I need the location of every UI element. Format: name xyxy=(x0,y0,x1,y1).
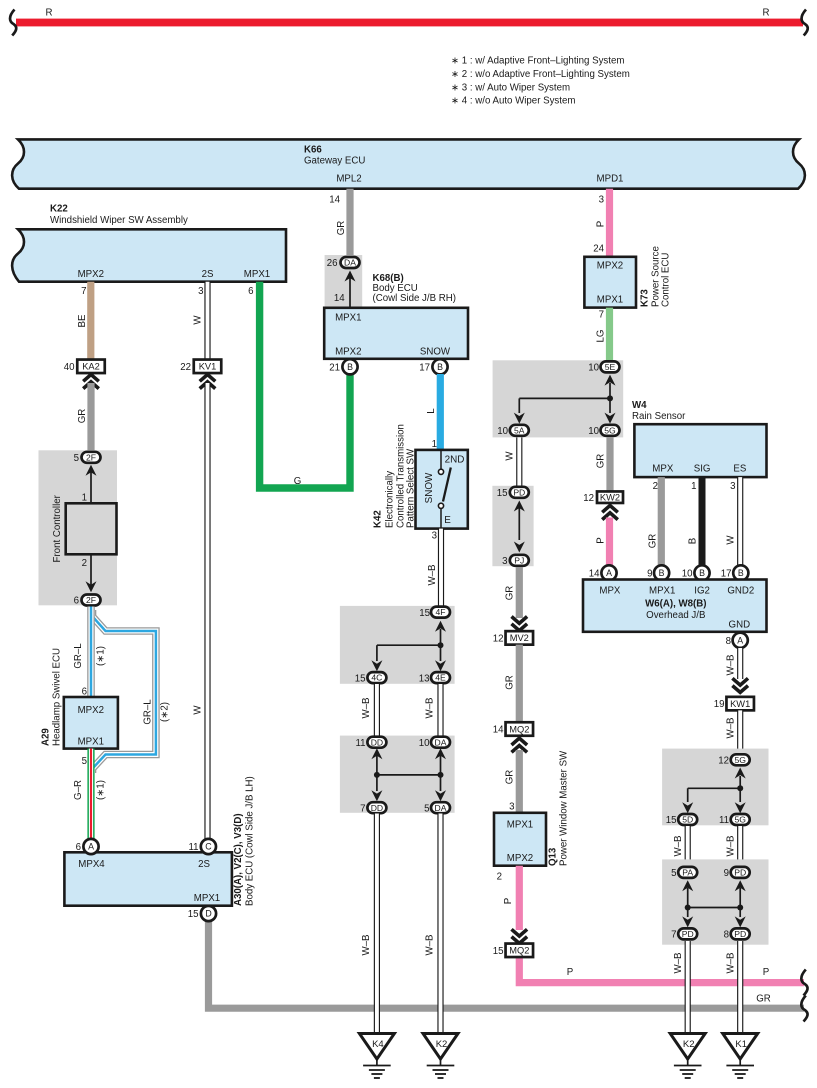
connector D pin 15 xyxy=(188,906,216,921)
wire W-B PD pin8 to ground K1 xyxy=(726,941,741,1034)
svg-text:MPL2: MPL2 xyxy=(336,174,361,185)
svg-text:MQ2: MQ2 xyxy=(509,946,529,956)
ECU A29 Headlamp Swivel ECU xyxy=(41,648,118,749)
svg-text:KA2: KA2 xyxy=(82,362,100,372)
wire W-B 4C to DD xyxy=(361,684,377,737)
node PD PJ link xyxy=(514,501,525,553)
break symbol right of P bus xyxy=(801,970,807,996)
node 4F junction xyxy=(371,621,446,672)
node PA PD junctions xyxy=(682,880,746,927)
svg-text:K2: K2 xyxy=(436,1039,448,1050)
wire BE K22 pin7 to KA2 xyxy=(77,282,91,359)
svg-text:21: 21 xyxy=(329,363,340,374)
svg-text:2F: 2F xyxy=(86,595,96,605)
shield distribution block 5G 5D xyxy=(662,749,768,826)
svg-text:7: 7 xyxy=(599,310,604,321)
svg-text:22: 22 xyxy=(180,362,191,373)
wire W-B 5D to PA xyxy=(673,826,688,861)
svg-text:B: B xyxy=(688,538,699,544)
svg-text:PD: PD xyxy=(682,929,694,939)
wire GR KA2 to 2F xyxy=(77,383,91,450)
svg-text:40: 40 xyxy=(64,362,75,373)
svg-text:5: 5 xyxy=(671,868,676,879)
connector 5G pin 11 xyxy=(719,814,750,826)
svg-text:26: 26 xyxy=(327,258,338,269)
svg-text:MPX1: MPX1 xyxy=(335,313,361,324)
connector B pin 17 xyxy=(721,565,749,580)
svg-text:K73: K73 xyxy=(640,289,651,307)
svg-text:L: L xyxy=(426,408,437,414)
svg-text:W–B: W–B xyxy=(726,953,737,974)
svg-text:5G: 5G xyxy=(734,755,746,765)
svg-text:MV2: MV2 xyxy=(510,633,529,643)
svg-text:W: W xyxy=(726,535,737,545)
wire P MQ2 to right edge xyxy=(519,956,804,983)
svg-text:A: A xyxy=(606,568,612,578)
svg-text:LG: LG xyxy=(596,330,607,343)
svg-text:MPX2: MPX2 xyxy=(597,261,623,272)
connector PJ pin 3 xyxy=(502,555,529,567)
connector DD pin 11 xyxy=(355,737,386,749)
svg-text:W–B: W–B xyxy=(673,836,684,857)
svg-text:W–B: W–B xyxy=(673,953,684,974)
svg-text:3: 3 xyxy=(730,481,735,492)
svg-text:19: 19 xyxy=(714,699,725,710)
svg-text:W: W xyxy=(505,451,516,461)
chevron into KW2 xyxy=(602,506,618,513)
ground K1 xyxy=(723,1034,758,1079)
svg-text:6: 6 xyxy=(248,286,253,297)
chevron into MQ2 pin15 xyxy=(512,929,528,936)
wire W 5A to PD xyxy=(505,437,520,487)
arrow pin14 into DA xyxy=(334,271,356,308)
svg-text:MPX: MPX xyxy=(599,586,621,597)
arrow up into 2F xyxy=(86,465,97,504)
svg-text:W–B: W–B xyxy=(726,836,737,857)
ground K2 xyxy=(423,1034,458,1079)
svg-text:5E: 5E xyxy=(605,362,616,372)
connector 5E pin 10 xyxy=(588,361,619,373)
connector 2F pin 6 xyxy=(74,595,101,607)
wire G K22 MPX1 pin6 to K68 MPX2 pin21 xyxy=(248,282,350,488)
connector DA pin 5 xyxy=(424,802,450,814)
svg-text:Body ECU (Cowl Side J/B LH): Body ECU (Cowl Side J/B LH) xyxy=(245,776,256,906)
svg-text:W–B: W–B xyxy=(726,718,737,739)
wire B W4 SIG pin1 to overhead IG2 xyxy=(688,477,703,565)
svg-text:W6(A), W8(B): W6(A), W8(B) xyxy=(645,599,706,610)
svg-text:15: 15 xyxy=(666,815,677,826)
svg-text:13: 13 xyxy=(419,673,430,684)
svg-text:4E: 4E xyxy=(435,673,446,683)
svg-text:PJ: PJ xyxy=(514,555,524,565)
svg-text:11: 11 xyxy=(719,815,729,826)
svg-text:3: 3 xyxy=(502,556,507,567)
svg-text:GND2: GND2 xyxy=(727,586,754,597)
shield pad above K68 xyxy=(325,255,363,308)
svg-text:GR: GR xyxy=(336,221,347,236)
svg-text:K22: K22 xyxy=(50,204,68,215)
legend notes xyxy=(451,56,630,107)
connector B pin 17 xyxy=(419,359,447,374)
connector 4C pin 15 xyxy=(355,672,387,684)
wire P K66 MPD1 pin3 to K73 pin24 xyxy=(593,189,609,257)
svg-text:B: B xyxy=(659,568,665,578)
svg-text:Electronically: Electronically xyxy=(385,471,396,528)
svg-text:GR: GR xyxy=(77,409,88,424)
svg-text:5: 5 xyxy=(424,803,429,814)
svg-text:4F: 4F xyxy=(435,607,445,617)
connector 4E pin 13 xyxy=(419,672,450,684)
connector 5D pin 15 xyxy=(666,814,697,826)
connector A pin 8 xyxy=(726,633,748,648)
svg-text:Power Window Master SW: Power Window Master SW xyxy=(559,750,570,866)
shield distribution block 5E 5A 5G xyxy=(493,360,624,437)
svg-text:∗ 3 : w/ Auto Wiper System: ∗ 3 : w/ Auto Wiper System xyxy=(451,82,570,93)
wire GR-L (*2) loop xyxy=(93,610,171,773)
svg-text:10: 10 xyxy=(588,426,599,437)
connector DD pin 7 xyxy=(360,802,386,814)
sensor W4 Rain Sensor xyxy=(632,400,767,477)
ECU A30(A) V2(C) V3(D) Body ECU Cowl Side J/B LH xyxy=(64,776,255,906)
svg-text:P: P xyxy=(596,537,607,543)
svg-text:5G: 5G xyxy=(734,815,746,825)
svg-text:P: P xyxy=(596,221,607,227)
svg-text:∗ 2 : w/o Adaptive Front–Light: ∗ 2 : w/o Adaptive Front–Lighting System xyxy=(451,69,630,80)
svg-text:W: W xyxy=(193,705,204,715)
svg-text:(∗1): (∗1) xyxy=(96,646,107,666)
svg-text:PA: PA xyxy=(682,868,693,878)
svg-text:7: 7 xyxy=(360,803,365,814)
ECU K66 Gateway ECU xyxy=(12,139,805,188)
svg-text:7: 7 xyxy=(671,930,676,941)
wire LG K73 MPX1 pin7 to 5E xyxy=(596,308,610,363)
svg-text:BE: BE xyxy=(77,314,88,327)
connector 5G pin 10 xyxy=(588,425,619,437)
svg-text:12: 12 xyxy=(493,634,504,645)
svg-text:MPX: MPX xyxy=(652,464,674,475)
wire W-B DD pin7 to ground K4 xyxy=(361,814,377,1035)
shield distribution block PA PD xyxy=(662,859,768,944)
break symbol left of bus R xyxy=(10,10,16,36)
svg-text:3: 3 xyxy=(198,286,203,297)
connector KV1 pin 22 xyxy=(180,360,221,374)
wire W W4 ES pin3 to overhead GND2 xyxy=(726,477,741,565)
svg-text:DD: DD xyxy=(371,803,383,813)
connector PD pin 7 xyxy=(671,928,697,940)
svg-text:6: 6 xyxy=(74,596,79,607)
svg-text:7: 7 xyxy=(81,286,86,297)
wire W-B 5G to PD xyxy=(726,826,741,861)
svg-text:B: B xyxy=(347,362,353,372)
connector PD pin 15 xyxy=(497,487,529,499)
svg-text:10: 10 xyxy=(682,569,693,580)
svg-text:GR–L: GR–L xyxy=(143,699,154,725)
wire W-B overhead GND pin8 to KW1 xyxy=(726,648,741,679)
shield Front Controller group xyxy=(39,450,118,605)
svg-text:MQ2: MQ2 xyxy=(509,724,529,734)
connector PD pin 8 xyxy=(724,928,750,940)
chevron into KW1 xyxy=(732,678,748,685)
svg-text:MPX1: MPX1 xyxy=(194,893,220,904)
chevron into KA2 xyxy=(83,375,99,382)
Front Controller box xyxy=(52,493,117,570)
svg-text:∗ 4 : w/o Auto Wiper System: ∗ 4 : w/o Auto Wiper System xyxy=(451,96,575,107)
svg-text:K1: K1 xyxy=(735,1039,747,1050)
svg-text:2: 2 xyxy=(497,871,502,882)
svg-text:(Cowl Side J/B RH): (Cowl Side J/B RH) xyxy=(373,293,456,304)
svg-text:3: 3 xyxy=(599,194,604,205)
svg-text:R: R xyxy=(46,8,53,19)
svg-text:8: 8 xyxy=(724,930,729,941)
svg-text:DA: DA xyxy=(435,737,447,747)
connector PA pin 5 xyxy=(671,867,697,879)
svg-text:PD: PD xyxy=(513,487,525,497)
node 5G junction xyxy=(682,768,746,814)
svg-text:D: D xyxy=(205,909,211,919)
svg-text:5: 5 xyxy=(82,756,87,767)
svg-text:K2: K2 xyxy=(683,1039,695,1050)
connector KW1 pin 19 xyxy=(714,697,754,711)
svg-text:17: 17 xyxy=(419,363,430,374)
svg-text:Front Controller: Front Controller xyxy=(52,494,63,562)
svg-text:KW1: KW1 xyxy=(730,699,750,709)
svg-text:B: B xyxy=(437,362,443,372)
connector 5G pin 12 xyxy=(718,754,749,766)
ECU K73 Power Source Control ECU xyxy=(584,246,671,307)
svg-text:K42: K42 xyxy=(373,510,384,528)
svg-text:P: P xyxy=(763,967,769,978)
wire GR K66 MPL2 pin14 to DA xyxy=(329,189,350,258)
svg-text:1: 1 xyxy=(82,493,87,504)
svg-text:MPX1: MPX1 xyxy=(649,586,675,597)
svg-text:11: 11 xyxy=(355,738,365,749)
svg-text:DA: DA xyxy=(344,258,356,268)
svg-text:IG2: IG2 xyxy=(694,586,710,597)
connector MQ2 pin 14 xyxy=(493,722,533,736)
svg-text:12: 12 xyxy=(718,756,729,767)
wire GR PJ to MV2 xyxy=(505,567,520,618)
svg-text:12: 12 xyxy=(583,493,594,504)
chevron into MQ2 xyxy=(512,738,528,745)
svg-text:MPX2: MPX2 xyxy=(335,347,361,358)
wire G-R (*1) A29 MPX1 to A30 xyxy=(73,749,107,840)
svg-text:PD: PD xyxy=(734,868,746,878)
svg-text:B: B xyxy=(699,568,705,578)
connector 4F pin 15 xyxy=(419,607,450,619)
svg-text:15: 15 xyxy=(497,488,508,499)
svg-text:DA: DA xyxy=(435,803,447,813)
svg-text:W–B: W–B xyxy=(361,935,372,956)
svg-text:24: 24 xyxy=(593,244,604,255)
ground K2 right xyxy=(670,1034,705,1079)
svg-text:Windshield Wiper SW Assembly: Windshield Wiper SW Assembly xyxy=(50,215,188,226)
connector KA2 pin 40 xyxy=(64,360,105,374)
connector A pin 6 xyxy=(76,839,99,854)
chevron into MV2 xyxy=(512,617,528,624)
svg-text:3: 3 xyxy=(432,531,437,542)
svg-text:2ND: 2ND xyxy=(445,455,465,466)
svg-text:14: 14 xyxy=(329,194,340,205)
svg-text:K66: K66 xyxy=(304,145,322,156)
svg-text:R: R xyxy=(763,8,770,19)
svg-text:15: 15 xyxy=(419,608,430,619)
svg-text:8: 8 xyxy=(726,636,731,647)
wire W-B DA pin5 to ground K2 xyxy=(425,814,441,1035)
svg-text:SNOW: SNOW xyxy=(424,472,435,503)
svg-text:A: A xyxy=(737,636,743,646)
wire W KV1 to A30 2S xyxy=(193,383,208,839)
svg-text:9: 9 xyxy=(647,569,652,580)
break symbol right of bus R xyxy=(802,10,808,36)
wire W-B KW1 to 5G pin12 xyxy=(726,710,741,754)
wire GR MV2 to MQ2 xyxy=(505,645,520,723)
svg-text:SIG: SIG xyxy=(694,464,711,475)
svg-text:17: 17 xyxy=(721,569,732,580)
ground K4 xyxy=(359,1034,394,1079)
svg-text:KW2: KW2 xyxy=(600,493,620,503)
wire GR A30 MPX1 pinD to right edge xyxy=(209,920,805,1008)
connector MQ2 pin 15 xyxy=(493,944,533,958)
wire GR-L (*1) 2F to A29 MPX2 xyxy=(73,607,107,698)
svg-text:15: 15 xyxy=(355,673,366,684)
svg-text:10: 10 xyxy=(588,363,599,374)
svg-text:MPX2: MPX2 xyxy=(78,705,104,716)
svg-text:KV1: KV1 xyxy=(199,362,217,372)
svg-text:MPX2: MPX2 xyxy=(78,269,104,280)
svg-text:MPX1: MPX1 xyxy=(244,269,270,280)
svg-text:Rain Sensor: Rain Sensor xyxy=(632,411,686,422)
wire W-B 4E to DA xyxy=(425,684,441,737)
svg-text:GR: GR xyxy=(505,675,516,690)
svg-text:4C: 4C xyxy=(371,673,382,683)
svg-text:5G: 5G xyxy=(604,425,616,435)
connector 5A pin 10 xyxy=(497,425,529,437)
svg-text:MPX1: MPX1 xyxy=(78,737,104,748)
connector B pin 10 xyxy=(682,565,710,580)
wire W K22 2S pin3 to KV1 xyxy=(193,282,208,359)
svg-text:G: G xyxy=(294,476,302,487)
svg-text:14: 14 xyxy=(334,293,345,304)
wire W-B PD pin7 to ground K2 xyxy=(673,941,688,1034)
node 5E junction xyxy=(514,375,616,424)
svg-text:GR: GR xyxy=(505,586,516,601)
chevron into KV1 xyxy=(200,375,216,382)
wire W-B K42 pin3 to 4F xyxy=(427,529,441,606)
svg-text:ES: ES xyxy=(733,464,746,475)
svg-text:5D: 5D xyxy=(682,815,693,825)
svg-text:W–B: W–B xyxy=(425,935,436,956)
svg-text:1: 1 xyxy=(691,481,696,492)
svg-text:P: P xyxy=(503,898,514,904)
svg-text:15: 15 xyxy=(493,946,504,957)
junction W6(A) W8(B) Overhead J/B xyxy=(583,580,767,632)
svg-text:W–B: W–B xyxy=(427,565,438,586)
svg-text:GR: GR xyxy=(756,994,771,1005)
svg-text:P: P xyxy=(567,967,573,978)
svg-text:MPD1: MPD1 xyxy=(597,174,624,185)
svg-text:W–B: W–B xyxy=(361,698,372,719)
svg-text:2: 2 xyxy=(82,558,87,569)
svg-text:2: 2 xyxy=(653,481,658,492)
svg-text:(∗2): (∗2) xyxy=(160,702,171,722)
svg-text:14: 14 xyxy=(493,725,504,736)
svg-text:PD: PD xyxy=(734,929,746,939)
wire L K68 SNOW to K42 pin1 xyxy=(426,374,440,450)
svg-text:2F: 2F xyxy=(86,452,96,462)
svg-text:W: W xyxy=(193,315,204,325)
svg-text:6: 6 xyxy=(76,842,81,853)
svg-text:10: 10 xyxy=(497,426,508,437)
connector B pin 21 xyxy=(329,359,357,374)
svg-text:DD: DD xyxy=(371,737,383,747)
svg-text:(∗1): (∗1) xyxy=(96,780,107,800)
svg-text:5: 5 xyxy=(74,453,79,464)
svg-text:GR: GR xyxy=(505,770,516,785)
svg-text:Overhead J/B: Overhead J/B xyxy=(646,610,705,621)
svg-text:10: 10 xyxy=(419,738,430,749)
svg-text:A: A xyxy=(88,842,94,852)
svg-text:3: 3 xyxy=(509,802,514,813)
shield pad PD PJ xyxy=(492,486,533,566)
power bus R (red) top xyxy=(16,8,803,27)
svg-text:MPX1: MPX1 xyxy=(507,820,533,831)
wire GR MQ2 to Q13 pin3 xyxy=(505,750,520,813)
svg-text:Gateway ECU: Gateway ECU xyxy=(304,156,365,167)
svg-text:A29: A29 xyxy=(41,728,52,746)
switch Q13 Power Window Master SW xyxy=(494,750,570,866)
switch K22 Windshield Wiper SW Assembly xyxy=(12,204,286,282)
wire P Q13 MPX2 pin2 to MQ2 xyxy=(497,866,520,930)
connector DA pin 26 xyxy=(327,257,360,269)
svg-text:W–B: W–B xyxy=(726,655,737,676)
connector PD pin 9 xyxy=(724,867,750,879)
break symbol right of GR bus xyxy=(801,996,807,1022)
node DD DA junctions xyxy=(371,748,446,801)
svg-text:Q13: Q13 xyxy=(548,847,559,866)
connector MV2 pin 12 xyxy=(493,631,533,645)
arrow down into 2F pin 6 xyxy=(86,554,97,592)
connector C pin 11 xyxy=(188,839,216,854)
svg-text:B: B xyxy=(738,568,744,578)
svg-text:G–R: G–R xyxy=(73,780,84,800)
wire P KW2 to overhead A pin14 xyxy=(596,518,610,566)
svg-text:11: 11 xyxy=(188,842,198,853)
svg-text:GR: GR xyxy=(596,454,607,469)
svg-text:A30(A), V2(C), V3(D): A30(A), V2(C), V3(D) xyxy=(233,813,244,906)
svg-text:W–B: W–B xyxy=(425,698,436,719)
connector KW2 pin 12 xyxy=(583,491,623,503)
svg-text:5A: 5A xyxy=(514,425,525,435)
svg-text:9: 9 xyxy=(724,868,729,879)
svg-text:E: E xyxy=(444,515,451,526)
svg-text:14: 14 xyxy=(589,569,600,580)
wire GR 5G to KW2 xyxy=(596,437,611,492)
shield ground-distribution block 4F 4C 4E xyxy=(340,606,455,684)
svg-text:MPX1: MPX1 xyxy=(597,295,623,306)
svg-text:GR: GR xyxy=(648,534,659,549)
svg-text:SNOW: SNOW xyxy=(420,347,451,358)
connector DA pin 10 xyxy=(419,737,450,749)
connector A pin 14 xyxy=(589,565,617,580)
svg-text:GND: GND xyxy=(729,620,751,631)
svg-text:MPX2: MPX2 xyxy=(507,853,533,864)
wire GR W4 MPX pin2 to overhead MPX1 xyxy=(648,477,662,565)
svg-text:K4: K4 xyxy=(372,1039,384,1050)
svg-text:MPX4: MPX4 xyxy=(78,859,105,870)
ECU K68(B) Body ECU Cowl Side J/B RH xyxy=(324,273,468,359)
svg-text:Pattern Select SW: Pattern Select SW xyxy=(405,448,416,528)
connector B pin 9 xyxy=(647,565,669,580)
